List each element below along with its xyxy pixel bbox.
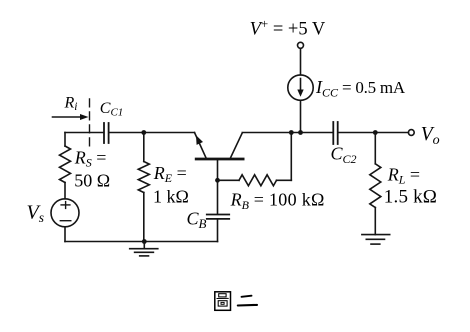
wire: base node to C_B <box>217 180 219 214</box>
input arrow at R_i <box>53 114 89 120</box>
label C_C2 <box>331 144 357 167</box>
wire: bottom rail <box>65 241 218 243</box>
wire: V_s to ground rail <box>64 227 66 242</box>
label R_L value <box>384 165 437 208</box>
resistor R_S <box>60 146 71 183</box>
node: R_B / collector rail <box>289 130 294 135</box>
terminal V+ <box>298 42 304 48</box>
wire: R_E branch upper <box>143 133 145 162</box>
node: bottom rail / ground <box>142 239 147 244</box>
capacitor C_C1 <box>104 123 109 143</box>
resistor R_B <box>239 175 277 186</box>
svg-text:50 Ω: 50 Ω <box>74 170 110 190</box>
label R_E value <box>153 163 189 206</box>
wire: collector rail <box>242 132 333 134</box>
wire: R_L branch upper <box>374 133 376 164</box>
wire: source top rail to C_C1 <box>65 132 104 134</box>
svg-text:1 kΩ: 1 kΩ <box>153 186 189 206</box>
wire: base node to R_B <box>218 179 240 181</box>
wire: R_E branch lower <box>143 193 145 242</box>
wire: base down <box>217 160 219 180</box>
node: supply / collector rail <box>298 130 303 135</box>
label V_s <box>27 202 44 226</box>
label R_S value <box>74 148 110 191</box>
capacitor C_C2 <box>333 122 337 144</box>
ground (center) <box>130 242 158 256</box>
current source I_CC <box>288 75 313 100</box>
capacitor C_B <box>207 215 229 219</box>
label R_B value <box>230 190 325 213</box>
resistor R_E <box>138 162 149 193</box>
label R_i <box>64 94 78 113</box>
transistor Q1 collector wire <box>231 133 243 158</box>
wire: current source to collector rail <box>300 100 302 132</box>
label C_C1 <box>100 100 124 119</box>
svg-text:1.5 kΩ: 1.5 kΩ <box>384 187 437 208</box>
wire: R_S to V_s <box>64 183 66 199</box>
label V_o <box>421 124 440 148</box>
source V_s <box>51 199 79 227</box>
wire: V+ to current source <box>300 48 302 75</box>
terminal V_o <box>408 130 414 136</box>
transistor Q1 base bar <box>196 158 243 161</box>
caption 圖二 (Figure 2) <box>215 292 257 311</box>
wire: R_L to ground <box>374 208 376 235</box>
label C_B <box>187 209 207 232</box>
wire: C_B to bottom rail <box>217 219 219 241</box>
transistor Q1 emitter arrow <box>196 135 203 145</box>
node: junction rail / R_E <box>141 130 146 135</box>
wire: C_C2 to output terminal <box>338 132 408 134</box>
wire: R_B to collector rail <box>277 133 292 181</box>
wire: R_S branch top corner <box>64 133 66 147</box>
node: output / R_L <box>373 130 378 135</box>
label V+ supply <box>250 16 326 40</box>
wire: C_C1 to emitter <box>109 132 195 134</box>
transistor Q1 emitter wire <box>195 133 207 158</box>
ground (output) <box>362 235 390 245</box>
dashed reference line at input <box>89 99 91 148</box>
resistor R_L <box>370 164 381 208</box>
label I_CC value <box>315 77 406 100</box>
node: base / R_B / C_B <box>215 178 220 183</box>
